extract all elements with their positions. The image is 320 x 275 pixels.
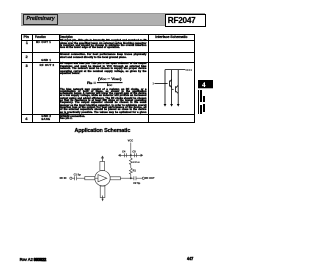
svg-text:C2 5p: C2 5p bbox=[133, 181, 140, 185]
svg-text:RF IN: RF IN bbox=[60, 176, 67, 180]
svg-text:L1 Ls: L1 Ls bbox=[133, 160, 140, 164]
svg-text:3: 3 bbox=[153, 82, 155, 86]
svg-text:R1: R1 bbox=[133, 169, 137, 173]
svg-text:VCC1: VCC1 bbox=[185, 68, 192, 72]
svg-text:VCC: VCC bbox=[128, 139, 134, 143]
svg-text:C5: C5 bbox=[132, 149, 136, 153]
svg-text:C4: C4 bbox=[122, 149, 126, 153]
svg-text:C1 5p: C1 5p bbox=[74, 172, 81, 176]
svg-text:RF OUT: RF OUT bbox=[145, 176, 155, 180]
